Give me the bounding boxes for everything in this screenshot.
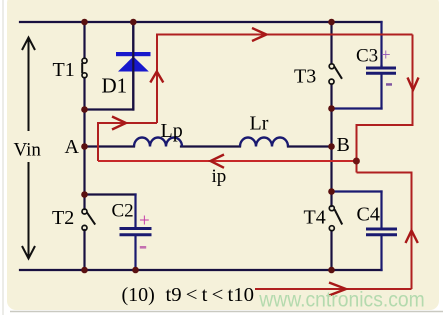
junction dot bottom rail right bbox=[328, 267, 335, 274]
wire C2 leads bbox=[134, 195, 136, 228]
node B dot bbox=[328, 143, 335, 150]
capacitor C4 plates bbox=[366, 229, 397, 235]
red path: D1 side vertical up bbox=[157, 35, 413, 124]
wire bottom rail bbox=[20, 269, 382, 271]
transistor switch T4 (open) bbox=[329, 206, 342, 231]
svg-text:+: + bbox=[381, 45, 391, 64]
junction dot bottom rail left bbox=[81, 267, 88, 274]
svg-text:T2: T2 bbox=[52, 207, 74, 229]
wire D1 branch bottom horizontal bbox=[85, 108, 134, 110]
red path: B to C4 outer bbox=[357, 173, 412, 290]
red arrow down on right segment bbox=[408, 78, 419, 91]
red path: right side down bbox=[357, 35, 413, 173]
wire left leg T2 gap ends bbox=[83, 195, 85, 210]
capacitor C3 plates bbox=[366, 68, 396, 73]
junction dot red path at B bbox=[353, 158, 360, 165]
svg-text:A: A bbox=[65, 136, 80, 158]
svg-text:B: B bbox=[337, 134, 350, 156]
red arrow up on bottom-right segment bbox=[406, 231, 418, 244]
wire D1 branch vertical bbox=[132, 22, 134, 110]
wire left leg upper (rail to T1) bbox=[83, 22, 85, 58]
red arrow right on bottom segment bbox=[329, 283, 346, 296]
red arrow right on top segment bbox=[252, 28, 267, 41]
red arrow up beside D1 bbox=[150, 72, 163, 83]
inductor Lr bbox=[240, 138, 288, 147]
svg-text:(10): (10) bbox=[122, 284, 155, 306]
svg-text:Lp: Lp bbox=[161, 120, 183, 142]
svg-text:Lr: Lr bbox=[250, 113, 269, 135]
red path: bottom line bbox=[255, 288, 412, 290]
junction dot T2/C2 split bbox=[81, 191, 88, 198]
wire C3 leads bbox=[380, 66, 382, 68]
source Vin down arrow bbox=[22, 162, 35, 259]
wire right leg T3 to T4 bbox=[330, 85, 332, 207]
wire left leg T1 to A bbox=[83, 78, 85, 195]
svg-text:t9 < t < t10: t9 < t < t10 bbox=[166, 284, 255, 306]
red path: ip return line bbox=[98, 160, 357, 162]
wire right leg upper (rail to T3) bbox=[330, 22, 332, 64]
inductor Lp bbox=[134, 138, 182, 147]
junction dot bottom rail C2 bbox=[132, 267, 139, 274]
wire C3 branch bottom horizontal bbox=[332, 107, 382, 109]
transistor switch T3 (open) bbox=[329, 64, 342, 84]
wire Lp to Lr segment bbox=[181, 145, 240, 147]
label C3 minus bbox=[386, 83, 392, 86]
red arrow left on ip return bbox=[211, 155, 225, 168]
transistor switch T2 (open) bbox=[82, 209, 95, 230]
red current path: left riser bbox=[98, 35, 413, 290]
diode D1 bbox=[116, 22, 151, 110]
transistor switch T1 (closed) bbox=[82, 58, 87, 78]
junction dot top rail left bbox=[81, 19, 88, 26]
svg-text:C3: C3 bbox=[356, 46, 378, 67]
wire C4 branch top horizontal bbox=[332, 190, 382, 192]
svg-text:T4: T4 bbox=[304, 207, 326, 229]
node A dot bbox=[81, 143, 88, 150]
svg-text:T3: T3 bbox=[294, 65, 316, 87]
junction dot C3 bottom join bbox=[328, 105, 335, 112]
source Vin up arrow bbox=[22, 38, 35, 132]
svg-text:C2: C2 bbox=[112, 201, 134, 222]
junction dot T4/C4 split bbox=[328, 188, 335, 195]
svg-text:ip: ip bbox=[212, 166, 227, 187]
capacitor C2 plates bbox=[120, 229, 152, 235]
red arrow right on lower-left segment bbox=[112, 28, 419, 296]
wire C2 branch top horizontal bbox=[85, 193, 136, 195]
wire right leg T4 bottom bbox=[330, 231, 332, 270]
label C2 minus bbox=[140, 246, 146, 249]
wire Lr to B segment bbox=[288, 145, 332, 147]
wire A-B primary (segment A to Lp) bbox=[85, 145, 135, 147]
junction dot top rail D1 bbox=[130, 19, 137, 26]
svg-text:D1: D1 bbox=[102, 74, 128, 98]
junction dot T1/D1 join bbox=[81, 106, 88, 113]
wire top rail bbox=[20, 21, 382, 23]
svg-text:+: + bbox=[139, 211, 150, 232]
wire C3 top lead (rail corner down to C3) bbox=[380, 22, 382, 66]
junction dot top rail right bbox=[328, 19, 335, 26]
svg-text:www.cntronics.com: www.cntronics.com bbox=[258, 288, 424, 311]
svg-text:C4: C4 bbox=[357, 204, 380, 226]
svg-text:Vin: Vin bbox=[14, 140, 42, 161]
svg-text:T1: T1 bbox=[53, 59, 75, 81]
wire C4 leads bbox=[380, 192, 382, 228]
